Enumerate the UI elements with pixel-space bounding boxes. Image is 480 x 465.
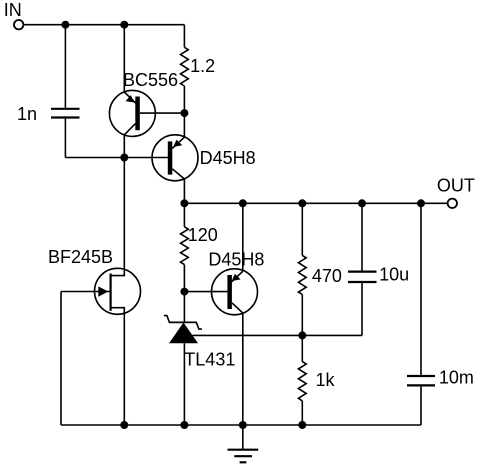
junction OUT rail at Q2 — [180, 199, 188, 207]
wire resistor 1k to ground rail — [301, 401, 303, 425]
wire Q3 collector to ground rail — [242, 313, 244, 425]
resistor 120 — [181, 227, 189, 265]
capacitor 10u — [348, 272, 377, 282]
svg-text:10m: 10m — [439, 367, 474, 387]
wire resistor 1.2 to Q2 emitter — [183, 86, 185, 137]
svg-text:D45H8: D45H8 — [200, 148, 256, 168]
terminal OUT — [448, 199, 457, 208]
junction OUT rail at Q3 — [239, 199, 247, 207]
svg-text:OUT: OUT — [437, 175, 475, 195]
transistor Q1 BC556 — [109, 90, 184, 136]
wire OUT rail to resistor 120 — [183, 203, 185, 227]
junction top rail at Q1 — [120, 21, 128, 29]
wire capacitor 1n to node B — [64, 119, 66, 158]
transistor Q4 BF245B — [61, 268, 141, 314]
svg-text:120: 120 — [188, 225, 218, 245]
svg-text:470: 470 — [312, 266, 342, 286]
junction top rail at C1 — [61, 21, 69, 29]
wire Q1 collector to node B — [123, 135, 125, 158]
wire capacitor 10m to ground rail — [420, 387, 422, 426]
terminal IN — [14, 20, 23, 29]
wire Q4 gate down — [60, 292, 62, 426]
svg-text:10u: 10u — [379, 265, 409, 285]
wire node C to Q3 base — [184, 291, 227, 293]
svg-text:D45H8: D45H8 — [208, 249, 264, 269]
wire resistor 470 to ref line — [301, 294, 303, 335]
junction OUT rail at 10u — [358, 199, 366, 207]
junction ground rail at Q3 — [239, 421, 247, 429]
transistor Q3 D45H8 — [212, 269, 258, 315]
wire capacitor 10u to ref line — [361, 283, 363, 335]
junction node C — [180, 288, 188, 296]
junction node B — [120, 154, 128, 162]
wire top rail to Q1 emitter — [123, 25, 125, 92]
junction ref line at divider — [298, 331, 306, 339]
diode U1 TL431 — [164, 316, 202, 344]
wire IN to capacitor 1n — [64, 25, 66, 108]
junction ground rail at TL431 — [180, 421, 188, 429]
resistor 1k — [298, 362, 306, 401]
wire Q2 collector to OUT rail — [183, 179, 185, 203]
svg-text:BC556: BC556 — [123, 70, 178, 90]
svg-text:TL431: TL431 — [184, 349, 235, 369]
resistor 470 — [298, 255, 306, 294]
capacitor 10m — [407, 376, 435, 385]
wire node C to TL431 cathode — [183, 292, 185, 323]
wire node B horizontal to Q2 base — [65, 157, 168, 159]
wire Q4 source to ground rail — [123, 314, 125, 425]
svg-text:BF245B: BF245B — [48, 247, 113, 267]
wire OUT rail to Q3 emitter — [242, 203, 244, 271]
svg-text:IN: IN — [4, 0, 22, 20]
capacitor 1n — [51, 109, 80, 118]
wire OUT rail — [184, 202, 447, 204]
junction OUT rail at 470 — [298, 199, 306, 207]
transistor Q2 D45H8 — [152, 135, 198, 181]
wire OUT rail to capacitor 10m — [420, 203, 422, 375]
ground — [228, 425, 259, 462]
resistor 1.2 — [181, 47, 189, 86]
svg-text:1.2: 1.2 — [190, 56, 215, 76]
wire top rail to resistor 1.2 — [183, 25, 185, 48]
wire TL431 ref line — [192, 334, 362, 336]
junction ground rail at Q4 — [120, 421, 128, 429]
wire OUT rail to capacitor 10u — [361, 203, 363, 270]
junction ground rail at 1k — [298, 421, 306, 429]
wire top rail — [24, 24, 185, 26]
svg-text:1k: 1k — [316, 370, 336, 390]
wire ground rail — [61, 424, 421, 426]
junction OUT rail at 10m — [417, 199, 425, 207]
wire node B to Q4 drain — [123, 158, 125, 270]
svg-text:1n: 1n — [17, 104, 37, 124]
junction Q1 base — [180, 109, 188, 117]
wire ref line to resistor 1k — [301, 335, 303, 361]
wire resistor 120 to node C — [183, 265, 185, 292]
wire TL431 anode to ground rail — [183, 343, 185, 425]
wire OUT rail to resistor 470 — [301, 203, 303, 255]
